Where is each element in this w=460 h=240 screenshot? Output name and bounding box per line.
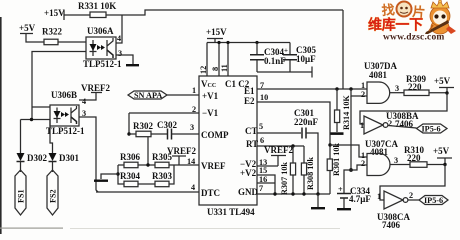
- svg-text:找: 找: [381, 2, 395, 18]
- svg-text:12: 12: [199, 66, 208, 74]
- svg-text:IP5-6: IP5-6: [422, 125, 441, 134]
- svg-text:R304: R304: [120, 171, 140, 181]
- svg-text:IP5-6: IP5-6: [424, 196, 443, 205]
- svg-text:4: 4: [117, 34, 121, 43]
- svg-text:4.7μF: 4.7μF: [349, 194, 371, 204]
- svg-text:TLP512-1: TLP512-1: [83, 59, 122, 69]
- svg-text:14: 14: [187, 157, 195, 166]
- svg-text:+5V: +5V: [434, 76, 451, 86]
- svg-text:R308 10k: R308 10k: [306, 157, 315, 190]
- svg-text:220: 220: [407, 153, 421, 163]
- svg-text:2: 2: [361, 90, 365, 99]
- svg-text:RT: RT: [246, 139, 258, 149]
- svg-text:+15V: +15V: [44, 8, 65, 18]
- svg-text:R307 10k: R307 10k: [280, 162, 289, 195]
- svg-text:C302: C302: [157, 120, 177, 130]
- svg-text:+: +: [284, 47, 288, 55]
- svg-text:E1: E1: [244, 86, 255, 96]
- svg-text:R301 10k: R301 10k: [332, 143, 341, 176]
- svg-text:220: 220: [408, 82, 422, 92]
- svg-text:7406: 7406: [382, 220, 401, 230]
- svg-text:10μF: 10μF: [296, 54, 316, 64]
- svg-text:4: 4: [191, 183, 195, 192]
- svg-text:2: 2: [361, 159, 365, 168]
- svg-text:1: 1: [192, 86, 196, 95]
- svg-text:U306A: U306A: [87, 26, 114, 36]
- svg-text:COMP: COMP: [201, 130, 229, 140]
- svg-text:1: 1: [377, 192, 381, 201]
- svg-text:D301: D301: [59, 153, 79, 163]
- svg-text:2: 2: [409, 191, 413, 200]
- svg-text:VREF2: VREF2: [264, 145, 293, 155]
- svg-text:3: 3: [395, 84, 399, 93]
- svg-text:0.1nF: 0.1nF: [264, 56, 286, 66]
- svg-text:+15V: +15V: [206, 27, 227, 37]
- svg-text:DTC: DTC: [201, 188, 220, 198]
- svg-text:U331 TL494: U331 TL494: [207, 207, 255, 217]
- svg-text:5: 5: [259, 122, 263, 131]
- svg-text:4: 4: [82, 97, 86, 106]
- svg-text:U306B: U306B: [51, 90, 77, 100]
- svg-text:R314 10K: R314 10K: [342, 95, 351, 130]
- svg-text:E2: E2: [244, 96, 255, 106]
- svg-text:15: 15: [259, 166, 267, 175]
- svg-text:R322: R322: [42, 27, 62, 37]
- svg-text:VREF: VREF: [201, 161, 226, 171]
- svg-text:6: 6: [260, 136, 264, 145]
- svg-text:10: 10: [260, 93, 268, 102]
- svg-text:D302: D302: [27, 153, 47, 163]
- svg-text:TLP512-1: TLP512-1: [46, 126, 85, 136]
- svg-text:1: 1: [361, 81, 365, 90]
- svg-text:3: 3: [118, 49, 122, 58]
- svg-text:SN APA: SN APA: [134, 91, 162, 100]
- svg-text:R303: R303: [152, 171, 172, 181]
- svg-text:−V1: −V1: [202, 108, 219, 118]
- svg-text:11: 11: [220, 64, 229, 72]
- svg-text:R302: R302: [133, 121, 153, 131]
- svg-text:2: 2: [388, 119, 392, 128]
- svg-text:7: 7: [259, 184, 263, 193]
- svg-text:+V2: +V2: [240, 168, 257, 178]
- svg-text:3: 3: [190, 123, 194, 132]
- svg-text:维库一下: 维库一下: [368, 17, 423, 34]
- svg-text:VREF2: VREF2: [81, 83, 110, 93]
- svg-text:+5V: +5V: [433, 146, 450, 156]
- svg-text:4081: 4081: [369, 70, 388, 80]
- svg-text:+V1: +V1: [202, 91, 219, 101]
- svg-text:R331 10K: R331 10K: [78, 1, 116, 11]
- svg-text:FS1: FS1: [17, 189, 26, 203]
- svg-text:FS2: FS2: [49, 189, 58, 203]
- svg-text:8: 8: [211, 67, 220, 71]
- svg-text:+5V: +5V: [19, 23, 36, 33]
- svg-text:CT: CT: [245, 126, 258, 136]
- svg-text:3: 3: [394, 156, 398, 165]
- svg-text:R306: R306: [120, 152, 140, 162]
- svg-text:2: 2: [192, 105, 196, 114]
- svg-text:GND: GND: [238, 187, 259, 197]
- svg-text:www.dzsc.com: www.dzsc.com: [383, 33, 445, 43]
- svg-text:220nF: 220nF: [294, 117, 319, 127]
- svg-text:+: +: [338, 185, 343, 194]
- svg-text:VREF2: VREF2: [167, 146, 196, 156]
